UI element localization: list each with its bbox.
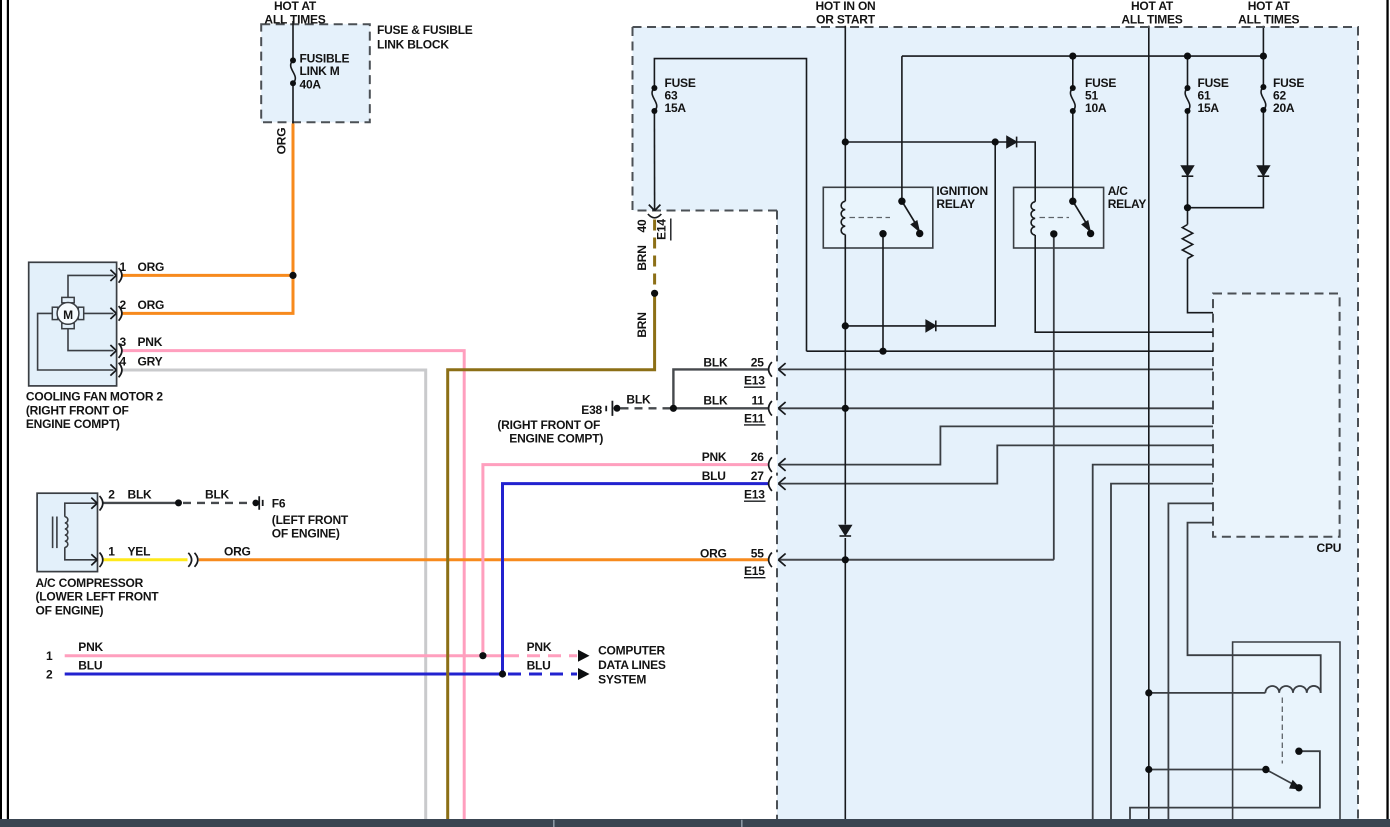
A/C compressor clutch box (bottom right): [1233, 642, 1340, 819]
svg-text:4: 4: [120, 355, 127, 369]
wire main vertical below diode rail to bottom edge: [844, 326, 846, 525]
wire hot feed to clutch coil: [1149, 692, 1266, 694]
svg-text:ORG: ORG: [224, 545, 251, 559]
wire BLK 11 inside harness to CPU: [778, 407, 1213, 409]
clutch switch pivot dot: [1262, 766, 1269, 773]
wire PNK fan pin 3 to bottom edge: [122, 351, 464, 819]
wire CPU row y464 to compressor drop: [1093, 465, 1213, 819]
wire BRN solid down-left-down to bottom edge: [448, 292, 655, 819]
fuse 61 element: [1185, 88, 1190, 111]
svg-text:A/C: A/C: [1108, 184, 1129, 198]
svg-text:(RIGHT FRONT OF: (RIGHT FRONT OF: [497, 418, 600, 432]
junction dot top rail at fuse 61: [1184, 53, 1191, 60]
svg-text:M: M: [63, 308, 73, 322]
svg-text:F6: F6: [272, 497, 286, 511]
junction dot clutch coil feed: [1145, 689, 1152, 696]
A/C relay box: [1014, 187, 1104, 248]
fuse 61 terminal dots: [1185, 85, 1191, 91]
wire GRY fan pin 4 to bottom edge: [122, 370, 426, 819]
wire BLK 25 left of connector to BLK 11 junction: [673, 369, 768, 408]
svg-text:BRN: BRN: [635, 245, 649, 270]
compressor internal wire pin2: [65, 503, 96, 517]
HOT IN ON OR START vertical feed: [844, 26, 846, 202]
svg-text:BLU: BLU: [78, 658, 102, 672]
junction dot ORG at fan pin1 row: [289, 272, 296, 279]
svg-text:2: 2: [108, 488, 115, 502]
fan pin 3 connector: [110, 343, 122, 358]
A/C relay arm contact dot: [1087, 230, 1094, 237]
E11 pin 11 connector: [769, 401, 786, 416]
E14 connector (arrow down into socket): [648, 205, 661, 218]
svg-text:A/C COMPRESSOR: A/C COMPRESSOR: [36, 576, 144, 590]
wire YEL compressor pin 1: [103, 558, 188, 561]
fuse 63 feed wire and top rail: [654, 59, 806, 352]
wire BRN dashed below E14: [653, 220, 656, 292]
diode D3 below fuse 61 (pointing down): [1182, 166, 1194, 175]
HOT AT ALL TIMES vertical no.2 (to fuse 61/62 rail): [1262, 26, 1264, 56]
diode D2 (y326, pointing right): [926, 321, 935, 332]
E15 pin 55 connector: [769, 553, 786, 568]
junction dot PNK data line: [479, 652, 486, 659]
top rail HOT AT ALL TIMES y56: [902, 55, 1264, 57]
clutch switch arm contact dot: [1295, 784, 1302, 791]
svg-text:ENGINE COMPT): ENGINE COMPT): [509, 432, 603, 446]
frame left double border: [0, 0, 2, 819]
junction dot BLK compressor lead: [175, 499, 182, 506]
svg-text:DATA LINES: DATA LINES: [598, 658, 666, 672]
svg-text:E15: E15: [744, 564, 765, 578]
junction dot y142 at diode branch: [992, 138, 999, 145]
svg-text:OR START: OR START: [816, 12, 876, 26]
wire A/C relay coil bottom to CPU: [1035, 235, 1213, 332]
wire ORG from fusible link M down to junction: [292, 124, 295, 276]
svg-text:BLK: BLK: [703, 393, 728, 407]
svg-text:27: 27: [751, 469, 764, 483]
diode D4 below fuse 62 (pointing down): [1258, 166, 1270, 175]
wire branch y142 to A/C relay coil: [845, 141, 1006, 143]
compressor pin 2 connector: [91, 496, 103, 511]
E13 pin 25 connector: [769, 362, 786, 377]
engine-compartment harness block (big dashed box fill): [633, 27, 1359, 819]
svg-text:2: 2: [120, 298, 127, 312]
junction dot coil-bottom/diode rail: [842, 322, 849, 329]
F6 ground dot: [252, 500, 259, 507]
svg-text:E13: E13: [744, 488, 765, 502]
junction dot relay-common rail: [879, 348, 886, 355]
F6 ground symbol: [259, 496, 263, 510]
wire rail to ignition relay common: [901, 56, 903, 201]
fuse & fusible link block box: [261, 24, 370, 122]
svg-text:OF ENGINE): OF ENGINE): [272, 527, 340, 541]
A/C relay pivot dot: [1069, 198, 1076, 205]
E38 ground lead dashed: [621, 407, 671, 409]
wire PNK data line 1 dashed: [506, 654, 577, 657]
wire fuse 51 to A/C relay pivot: [1072, 56, 1074, 88]
harness left dashed edge with connector gaps: [776, 211, 778, 820]
compressor pin 1 connector: [91, 553, 103, 568]
svg-text:10A: 10A: [1085, 101, 1107, 115]
svg-text:RELAY: RELAY: [1108, 197, 1147, 211]
wire ORG inline connector to E15: [199, 558, 768, 561]
fan pin 4 connector: [110, 363, 122, 378]
svg-text:2: 2: [46, 668, 53, 682]
cooling fan motor 2 box: [29, 262, 117, 386]
wire junction to resistor: [1187, 208, 1189, 225]
ignition relay coil winding: [841, 201, 845, 234]
svg-text:E14: E14: [655, 219, 669, 240]
wire clutch switch contact loop to bottom: [1130, 751, 1320, 819]
wire fuse 61 drop: [1187, 56, 1189, 88]
big dashed harness border: [633, 27, 1359, 819]
svg-text:26: 26: [751, 450, 764, 464]
wire resistor to CPU: [1188, 259, 1214, 313]
A/C compressor box: [37, 493, 97, 571]
svg-text:(LOWER LEFT FRONT: (LOWER LEFT FRONT: [36, 590, 160, 604]
svg-text:RELAY: RELAY: [936, 197, 975, 211]
wire BLK 11 solid to connector: [673, 407, 768, 409]
wire hot-at-all-times into fusible link: [292, 21, 294, 60]
junction dot BRN: [651, 290, 658, 297]
HOT AT ALL TIMES vertical no.1 (to clutch): [1148, 26, 1150, 819]
svg-text:ORG: ORG: [700, 547, 727, 561]
svg-text:PNK: PNK: [138, 335, 163, 349]
svg-text:FUSE & FUSIBLE: FUSE & FUSIBLE: [377, 23, 473, 37]
svg-text:ORG: ORG: [138, 298, 165, 312]
wire ignition relay common contact down to y351 rail: [882, 234, 884, 352]
svg-text:PNK: PNK: [78, 640, 103, 654]
svg-text:BLK: BLK: [205, 488, 230, 502]
fan motor internal wire pin1: [68, 275, 114, 298]
ignition relay coil-arm dashed link: [850, 217, 891, 219]
svg-text:YEL: YEL: [128, 545, 151, 559]
junction dot top rail at fuse 62: [1260, 53, 1267, 60]
compressor coil core bars: [52, 517, 54, 549]
resistor R1: [1182, 225, 1192, 259]
svg-text:BLK: BLK: [703, 355, 728, 369]
diode D5 on main vertical (pointing down): [840, 526, 852, 535]
wire fuse 62 diode to junction with fuse 61: [1188, 176, 1264, 208]
svg-text:ORG: ORG: [138, 260, 165, 274]
data line arrow PNK: [578, 650, 590, 662]
wire CPU row y483 to compressor drop: [1111, 484, 1213, 819]
compressor internal wire pin1: [65, 547, 96, 560]
fan pin 1 connector: [110, 268, 122, 283]
wire ORG 55 inside harness junction marker segment: [1053, 234, 1055, 560]
svg-text:BLK: BLK: [626, 393, 651, 407]
junction dot top rail at fuse 51: [1069, 53, 1076, 60]
junction dot clutch switch feed: [1145, 766, 1152, 773]
fuse 62 terminal dots: [1260, 84, 1266, 90]
wire ignition coil bottom down to diode rail: [844, 235, 846, 327]
wire CPU row y522 to clutch coil loop: [1188, 523, 1321, 693]
E38 ground symbol: [606, 401, 612, 416]
wire BLU data line 2 solid: [65, 673, 503, 676]
svg-text:PNK: PNK: [702, 450, 727, 464]
svg-text:11: 11: [751, 393, 764, 407]
svg-text:25: 25: [751, 355, 764, 369]
svg-text:COMPUTER: COMPUTER: [598, 644, 665, 658]
wire BLK 25 inside harness to CPU: [778, 368, 1213, 370]
wire (995,142) down to y326 rail: [936, 142, 995, 326]
clutch coil winding (horizontal): [1265, 686, 1320, 693]
wire coil-bottom node to diode D2: [845, 325, 926, 327]
fan motor internal wire pin3: [68, 329, 114, 351]
E13 pin 26 connector: [769, 457, 786, 472]
svg-text:ALL TIMES: ALL TIMES: [1238, 12, 1299, 26]
E13 pin 27 connector: [769, 476, 786, 491]
svg-text:ALL TIMES: ALL TIMES: [1121, 12, 1182, 26]
A/C relay coil winding: [1031, 202, 1035, 235]
junction dot diode rail at resistor: [1184, 204, 1191, 211]
A/C relay switch arm: [1073, 201, 1086, 222]
svg-text:BRN: BRN: [635, 312, 649, 337]
svg-text:E13: E13: [744, 374, 765, 388]
junction dot BLU data line: [499, 670, 506, 677]
svg-text:E11: E11: [744, 411, 765, 425]
svg-text:BLU: BLU: [527, 658, 551, 672]
wire BLK compressor pin 2 solid: [103, 502, 179, 504]
fan pin 2 connector: [110, 306, 122, 321]
svg-text:ENGINE COMPT): ENGINE COMPT): [26, 417, 120, 431]
svg-text:COOLING FAN MOTOR 2: COOLING FAN MOTOR 2: [26, 390, 163, 404]
CPU dashed box: [1213, 294, 1340, 537]
wire fuse 63 to E14: [653, 111, 655, 210]
wire hot feed to clutch switch pivot: [1149, 769, 1266, 771]
fuse 51 terminal dots: [1070, 85, 1076, 91]
ignition relay common contact dot: [879, 230, 886, 237]
wire fusible link to block bottom: [292, 83, 294, 123]
svg-text:3: 3: [120, 335, 127, 349]
svg-text:GRY: GRY: [138, 355, 163, 369]
svg-text:(RIGHT FRONT OF: (RIGHT FRONT OF: [26, 403, 129, 417]
inline connector YEL/ORG: [188, 553, 198, 567]
junction dot BLK11/BLK25: [670, 405, 677, 412]
svg-text:HOT AT: HOT AT: [274, 0, 317, 13]
wire PNK data line 1 solid: [65, 654, 506, 657]
svg-text:CPU: CPU: [1317, 541, 1342, 555]
fuse 63 element: [652, 88, 657, 111]
wire BLU data line 2 dashed: [508, 673, 577, 676]
diode D1 (y142, pointing right): [1007, 137, 1016, 148]
A/C relay left contact dot: [1050, 230, 1057, 237]
svg-text:OF ENGINE): OF ENGINE): [36, 603, 104, 617]
bottom window bar: [0, 819, 1390, 827]
fuse 63 terminal dots: [651, 85, 657, 91]
wire ORG junction down to fan pin 2: [122, 275, 293, 313]
svg-text:BLU: BLU: [702, 469, 726, 483]
junction dot main vertical at BLK11 row: [842, 405, 849, 412]
fusible link M (40A) element: [291, 60, 296, 83]
svg-text:15A: 15A: [665, 101, 687, 115]
svg-text:PNK: PNK: [527, 640, 552, 654]
ignition relay box: [823, 187, 933, 248]
svg-text:ALL TIMES: ALL TIMES: [264, 12, 325, 26]
svg-text:(LEFT FRONT: (LEFT FRONT: [272, 513, 349, 527]
svg-text:HOT AT: HOT AT: [1131, 0, 1174, 13]
svg-text:LINK M: LINK M: [300, 64, 340, 78]
wire fuse 62 drop: [1262, 56, 1264, 87]
wire PNK riser to E13 pin 26: [483, 465, 768, 656]
wire BLU riser to E13 pin 27: [503, 484, 769, 674]
svg-text:1: 1: [120, 260, 127, 274]
clutch switch upper contact dot: [1295, 748, 1302, 755]
wire ORG fan pin 1: [122, 274, 293, 277]
wire relay-common rail y351 to CPU: [807, 350, 1214, 352]
wire ORG 55 inside harness to A/C relay contact drop: [778, 559, 1054, 561]
fan motor internal wire pin4: [38, 313, 114, 370]
fan motor internal wire pin2: [84, 312, 114, 314]
svg-text:1: 1: [108, 545, 115, 559]
A/C relay coil-arm dashed link: [1040, 217, 1070, 219]
svg-text:40A: 40A: [300, 78, 322, 92]
fuse 51 element: [1070, 88, 1075, 111]
frame right border: [1386, 0, 1388, 819]
data line arrow BLU: [578, 668, 590, 680]
junction dot main vertical at ORG55 row: [842, 556, 849, 563]
svg-text:HOT AT: HOT AT: [1248, 0, 1291, 13]
fusible link terminal dots: [290, 57, 296, 63]
svg-text:1: 1: [46, 649, 53, 663]
motor M symbol: [52, 297, 83, 328]
compressor coil winding: [65, 517, 68, 547]
svg-text:LINK BLOCK: LINK BLOCK: [377, 37, 449, 51]
svg-text:40: 40: [635, 219, 649, 232]
svg-text:55: 55: [751, 547, 764, 561]
svg-text:BLK: BLK: [128, 488, 153, 502]
ignition relay switch arm: [902, 201, 915, 222]
svg-text:E38: E38: [581, 403, 602, 417]
wire BLU 27 inside harness stepped to CPU: [778, 445, 1213, 483]
fuse 62 element: [1261, 87, 1266, 110]
wire CPU row y503 to compressor drop: [1168, 503, 1213, 819]
E38 ground dot: [614, 405, 621, 412]
svg-text:20A: 20A: [1273, 101, 1295, 115]
junction dot y142 at main vertical: [842, 138, 849, 145]
svg-text:15A: 15A: [1198, 101, 1220, 115]
wire PNK 26 inside harness stepped to CPU: [778, 426, 1213, 464]
wire BLK compressor pin 2 dashed to F6: [183, 502, 253, 504]
clutch actuation dashed link: [1281, 698, 1283, 764]
svg-text:SYSTEM: SYSTEM: [598, 672, 646, 686]
clutch switch arm: [1266, 770, 1293, 785]
svg-text:HOT IN ON: HOT IN ON: [815, 0, 875, 13]
svg-text:IGNITION: IGNITION: [936, 184, 988, 198]
ignition relay pivot dot: [898, 198, 905, 205]
ignition relay arm contact dot: [916, 230, 923, 237]
svg-text:ORG: ORG: [275, 128, 289, 155]
